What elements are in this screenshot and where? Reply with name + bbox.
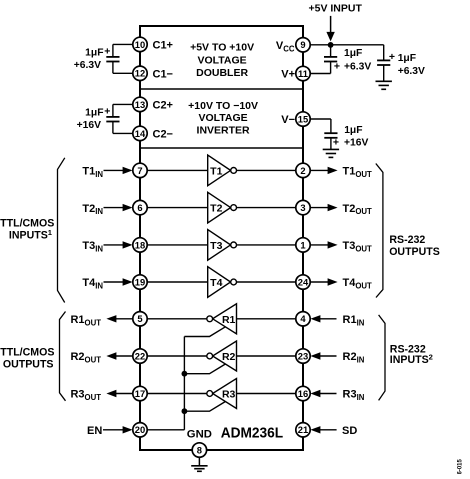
- wire T4 input: [140, 281, 208, 283]
- svg-text:TTL/CMOS: TTL/CMOS: [0, 218, 54, 230]
- wire T2 output: [237, 207, 304, 209]
- pin 1: [296, 238, 310, 252]
- pin 8: [192, 443, 206, 457]
- svg-text:9: 9: [300, 39, 305, 50]
- wire R3 output: [140, 393, 207, 395]
- label R1OUT: [70, 314, 101, 327]
- svg-text:INPUTS2: INPUTS2: [390, 352, 433, 366]
- arrow R3IN input: [310, 390, 336, 397]
- svg-text:11: 11: [298, 68, 308, 79]
- label T3IN: [82, 240, 103, 253]
- capacitor C5 value 1uF: [344, 125, 362, 136]
- arrow T3OUT output: [310, 241, 337, 248]
- wire T4 output: [237, 281, 304, 283]
- capacitor C5: [324, 133, 337, 138]
- svg-text:T4: T4: [210, 277, 222, 289]
- wire R2 output: [140, 355, 207, 357]
- capacitor C1 polarity +: [104, 46, 110, 58]
- label C2+: [153, 100, 174, 112]
- svg-text:GND: GND: [187, 429, 212, 441]
- brace TTL/CMOS outputs: [60, 312, 66, 401]
- pin 18: [133, 238, 147, 252]
- svg-text:1μF: 1μF: [344, 125, 362, 136]
- enable tap R3: [184, 402, 225, 412]
- capacitor C1 value 1uF: [85, 47, 103, 58]
- label T2IN: [82, 203, 103, 216]
- arrow R2OUT output: [106, 352, 132, 359]
- pin 22: [133, 349, 147, 363]
- svg-text:1μF: 1μF: [85, 107, 103, 118]
- svg-text:INPUTS1: INPUTS1: [9, 228, 53, 242]
- svg-text:TTL/CMOS: TTL/CMOS: [0, 347, 54, 359]
- +5V INPUT label: [308, 3, 362, 15]
- pin 23: [296, 349, 310, 363]
- wire T1 input: [140, 169, 208, 171]
- svg-text:16: 16: [298, 388, 308, 399]
- svg-text:23: 23: [298, 350, 308, 361]
- pin 2: [296, 163, 310, 177]
- svg-text:EN: EN: [87, 425, 102, 437]
- svg-text:+: +: [104, 46, 110, 58]
- svg-text:T1: T1: [210, 165, 222, 177]
- label R1IN: [343, 314, 365, 327]
- pin 11: [296, 66, 310, 80]
- ground for C5: [323, 149, 339, 157]
- svg-text:21: 21: [298, 424, 308, 435]
- svg-text:5: 5: [137, 313, 142, 324]
- capacitor C1: [106, 57, 119, 62]
- node VCC junction dot: [328, 42, 334, 48]
- arrow T2OUT output: [310, 204, 337, 211]
- enable bus junction dot R2: [182, 371, 188, 377]
- svg-text:INVERTER: INVERTER: [197, 124, 251, 136]
- label GND: [187, 429, 212, 441]
- label R3IN: [343, 389, 365, 402]
- driver T1: [208, 155, 237, 186]
- svg-text:18: 18: [135, 239, 145, 250]
- svg-text:OUTPUTS: OUTPUTS: [389, 246, 440, 258]
- svg-text:C2+: C2+: [153, 100, 174, 112]
- capacitor C2 polarity +: [104, 106, 110, 118]
- label T2OUT: [343, 203, 373, 216]
- arrow T1IN input: [104, 167, 133, 174]
- arrow T2IN input: [104, 204, 133, 211]
- capacitor C4 voltage +6.3V: [398, 66, 425, 77]
- svg-text:1μF: 1μF: [344, 48, 362, 59]
- svg-text:10: 10: [135, 39, 145, 50]
- svg-text:+16V: +16V: [77, 120, 101, 131]
- pin 19: [133, 275, 147, 289]
- capacitor C1 wiring: [113, 44, 140, 73]
- svg-text:+6.3V: +6.3V: [74, 60, 101, 71]
- arrow T1OUT output: [310, 167, 337, 174]
- svg-text:3: 3: [300, 202, 305, 213]
- svg-text:+5V INPUT: +5V INPUT: [308, 3, 362, 15]
- label SD: [342, 425, 357, 437]
- pin 9: [296, 38, 310, 52]
- svg-text:T2: T2: [210, 203, 222, 215]
- pin 13: [133, 97, 147, 111]
- svg-text:R2: R2: [222, 351, 236, 363]
- svg-text:15: 15: [298, 113, 308, 124]
- pin 20: [133, 423, 147, 437]
- svg-text:2: 2: [300, 165, 305, 176]
- svg-text:V−: V−: [281, 114, 295, 126]
- svg-text:VOLTAGE: VOLTAGE: [197, 54, 246, 66]
- enable bus wire: [140, 337, 184, 430]
- arrow T4OUT output: [310, 278, 337, 285]
- label T3OUT: [343, 240, 373, 253]
- driver T2: [208, 192, 237, 223]
- svg-text:1: 1: [300, 239, 305, 250]
- svg-text:8: 8: [197, 444, 202, 455]
- arrow EN input: [103, 426, 133, 433]
- label RS-232 INPUTS: [390, 343, 433, 366]
- wire T1 output: [237, 169, 304, 171]
- label TTL/CMOS INPUTS: [0, 218, 54, 242]
- label V-: [281, 114, 295, 126]
- pin 16: [296, 386, 310, 400]
- IC ADM236L outline: [140, 26, 303, 450]
- svg-text:20: 20: [135, 424, 145, 435]
- capacitor C5 voltage +16V: [344, 137, 368, 148]
- arrow R3OUT output: [106, 390, 132, 397]
- voltage inverter bottom divider line: [140, 147, 303, 149]
- pin 14: [133, 126, 147, 140]
- svg-text:12: 12: [135, 68, 145, 79]
- svg-text:19: 19: [135, 276, 145, 287]
- wire R2 input: [237, 355, 304, 357]
- svg-text:SD: SD: [342, 425, 357, 437]
- arrow SD input: [310, 426, 336, 433]
- capacitor C4: [377, 60, 390, 65]
- receiver R2: [207, 341, 237, 371]
- pin 4: [296, 312, 310, 326]
- ground for C4: [376, 81, 392, 89]
- label R3OUT: [70, 389, 101, 402]
- label RS-232 OUTPUTS: [389, 234, 440, 258]
- svg-text:13: 13: [135, 99, 145, 110]
- svg-text:24: 24: [298, 276, 309, 287]
- capacitor C2 voltage +16V: [77, 120, 101, 131]
- brace RS-232 inputs: [379, 315, 385, 401]
- label R2OUT: [70, 351, 101, 364]
- pin 7: [133, 163, 147, 177]
- receiver R1: [207, 304, 237, 334]
- figure number 00296-015: [458, 458, 464, 474]
- wire T3 input: [140, 244, 208, 246]
- label TTL/CMOS OUTPUTS: [0, 347, 54, 371]
- wire T2 input: [140, 207, 208, 209]
- +5V input arrow: [326, 16, 334, 42]
- svg-text:OUTPUTS: OUTPUTS: [3, 359, 54, 371]
- svg-text:T3: T3: [210, 240, 222, 252]
- capacitor C5 wiring: [303, 119, 331, 149]
- arrow R2IN input: [310, 352, 336, 359]
- capacitor C3: [324, 57, 337, 62]
- label T1OUT: [343, 166, 373, 179]
- enable tap R2: [184, 364, 225, 374]
- svg-text:R3: R3: [222, 389, 236, 401]
- capacitor C3 value 1uF: [344, 48, 362, 59]
- svg-text:+: +: [333, 137, 339, 149]
- wire pin8 to ground: [198, 457, 200, 466]
- pin 3: [296, 200, 310, 214]
- svg-text:C2−: C2−: [153, 129, 174, 141]
- svg-text:1μF: 1μF: [85, 47, 103, 58]
- svg-text:+10V TO −10V: +10V TO −10V: [188, 100, 258, 112]
- label R2IN: [343, 351, 365, 364]
- label ADM236L: [221, 425, 284, 442]
- svg-text:VOLTAGE: VOLTAGE: [198, 112, 247, 124]
- svg-text:+: +: [334, 61, 340, 73]
- pin 17: [133, 386, 147, 400]
- enable bus junction dot R3: [182, 408, 188, 414]
- label T4IN: [82, 277, 103, 290]
- svg-text:6: 6: [137, 202, 142, 213]
- label C1+: [153, 40, 174, 52]
- voltage doubler label: [190, 42, 254, 80]
- svg-text:+16V: +16V: [344, 137, 368, 148]
- capacitor C3 voltage +6.3V: [344, 61, 371, 72]
- svg-text:6-015: 6-015: [458, 458, 464, 474]
- svg-text:+: +: [389, 51, 395, 63]
- voltage inverter label: [188, 100, 258, 136]
- driver T3: [208, 230, 237, 261]
- pin 5: [133, 312, 147, 326]
- wire R1 input: [237, 318, 304, 320]
- arrow R1IN input: [310, 315, 336, 322]
- label V+: [281, 69, 295, 81]
- label T1IN: [82, 166, 103, 179]
- capacitor C2 wiring: [113, 104, 140, 133]
- svg-text:+5V TO +10V: +5V TO +10V: [190, 42, 254, 54]
- svg-text:R1: R1: [222, 314, 236, 326]
- svg-text:C1+: C1+: [153, 40, 174, 52]
- svg-text:+6.3V: +6.3V: [398, 66, 425, 77]
- pin 10: [133, 37, 147, 51]
- arrow T4IN input: [104, 278, 133, 285]
- label C2-: [153, 129, 174, 141]
- arrow R1OUT output: [106, 315, 132, 322]
- brace TTL/CMOS inputs: [58, 158, 65, 303]
- wire R1 output: [140, 318, 207, 320]
- capacitor C5 polarity +: [333, 137, 339, 149]
- capacitor C1 voltage +6.3V: [74, 60, 101, 71]
- svg-text:C1−: C1−: [153, 69, 174, 81]
- svg-text:+: +: [104, 106, 110, 118]
- enable tap R1: [184, 327, 225, 337]
- wire T3 output: [237, 244, 304, 246]
- label EN: [87, 425, 102, 437]
- svg-text:V+: V+: [281, 69, 295, 81]
- wire VCC to bypass caps: [303, 44, 384, 46]
- receiver R3: [207, 379, 237, 409]
- capacitor C3 wiring: [303, 45, 331, 74]
- capacitor C2: [106, 117, 119, 122]
- label C1-: [153, 69, 174, 81]
- svg-text:1μF: 1μF: [398, 53, 416, 64]
- label VCC: [276, 40, 295, 53]
- label T4OUT: [343, 277, 373, 290]
- svg-text:DOUBLER: DOUBLER: [196, 67, 248, 79]
- capacitor C4 value 1uF: [398, 53, 416, 64]
- capacitor C4 wiring: [383, 45, 385, 82]
- svg-text:4: 4: [300, 313, 306, 324]
- svg-text:+6.3V: +6.3V: [344, 61, 371, 72]
- svg-text:7: 7: [137, 165, 142, 176]
- brace RS-232 outputs: [376, 164, 383, 298]
- svg-text:22: 22: [135, 350, 145, 361]
- capacitor C3 polarity +: [334, 61, 340, 73]
- pin 24: [296, 275, 310, 289]
- pin 21: [296, 423, 310, 437]
- wire R3 input: [237, 393, 304, 395]
- arrow T3IN input: [104, 241, 133, 248]
- svg-text:ADM236L: ADM236L: [221, 425, 284, 442]
- capacitor C4 polarity +: [389, 51, 395, 63]
- pin 6: [133, 200, 147, 214]
- voltage doubler / inverter divider line: [140, 88, 303, 90]
- svg-text:17: 17: [135, 388, 145, 399]
- svg-text:14: 14: [135, 128, 146, 139]
- driver T4: [208, 267, 237, 298]
- pin 12: [133, 66, 147, 80]
- ground GND pin8: [191, 466, 207, 472]
- svg-text:RS-232: RS-232: [389, 234, 425, 246]
- pin 15: [296, 112, 310, 126]
- capacitor C2 value 1uF: [85, 107, 103, 118]
